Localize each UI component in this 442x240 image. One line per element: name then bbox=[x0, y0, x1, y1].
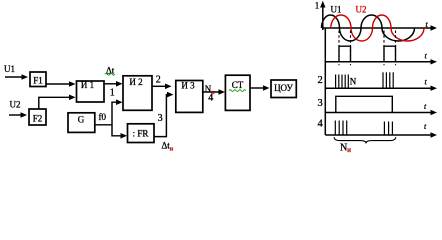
svg-text:ЦОУ: ЦОУ bbox=[274, 83, 293, 93]
pulse 1 row1 bbox=[339, 46, 351, 62]
svg-text:И 3: И 3 bbox=[181, 81, 195, 91]
wire I2 to I3 bbox=[152, 84, 172, 90]
svg-text:1: 1 bbox=[110, 88, 115, 99]
arrowhead axis3 bbox=[431, 110, 438, 115]
arrowhead axis1b bbox=[431, 59, 438, 64]
wire I3 to CT bbox=[203, 89, 225, 95]
block G bbox=[68, 113, 95, 133]
svg-text:U2: U2 bbox=[356, 5, 367, 15]
svg-text:Δtи: Δtи bbox=[162, 141, 174, 153]
arrowhead spine up bbox=[320, 1, 325, 8]
axis vertical spine lower bbox=[324, 29, 326, 136]
wire F1 to I1 bbox=[46, 81, 76, 87]
wire FR output riser to I3 lower input bbox=[154, 92, 174, 137]
arrowhead axis1 bbox=[431, 25, 438, 30]
svg-text:: FR: : FR bbox=[133, 129, 149, 139]
svg-text:U2: U2 bbox=[10, 100, 21, 110]
svg-text:U1: U1 bbox=[4, 64, 15, 74]
svg-text:2: 2 bbox=[318, 75, 323, 86]
svg-text:3: 3 bbox=[318, 98, 323, 109]
pulse 2 row1 bbox=[384, 46, 396, 62]
dashed line 3 bbox=[383, 31, 385, 66]
svg-text:G: G bbox=[78, 115, 85, 125]
wire F2 riser to I1 lower input bbox=[39, 95, 76, 110]
block F1 bbox=[30, 72, 46, 87]
row4 burst B ticks bbox=[383, 122, 385, 136]
wire U2 input arrow bbox=[9, 112, 27, 118]
block I1 bbox=[77, 81, 105, 102]
svg-text:И 1: И 1 bbox=[81, 80, 94, 90]
row2 burst B ticks bbox=[382, 72, 384, 88]
svg-text:И 2: И 2 bbox=[129, 77, 142, 87]
axis 1b (pulse row) bbox=[325, 61, 431, 63]
svg-text:t: t bbox=[424, 102, 427, 111]
axis 1 (sine row) bbox=[322, 27, 431, 29]
block I2 bbox=[123, 76, 152, 111]
svg-text:1: 1 bbox=[315, 1, 320, 11]
svg-text:F2: F2 bbox=[33, 114, 43, 124]
timing diagram bbox=[322, 6, 431, 136]
wire G output with riser bbox=[95, 99, 123, 124]
svg-text:t: t bbox=[425, 78, 428, 87]
underbrace N_i bbox=[334, 137, 396, 143]
svg-text:t: t bbox=[424, 122, 427, 131]
svg-text:U1: U1 bbox=[331, 5, 342, 15]
block FR bbox=[128, 124, 155, 143]
wire riser to FR input bbox=[112, 125, 127, 139]
svg-text:f0: f0 bbox=[99, 112, 107, 122]
dashed line 1 bbox=[338, 31, 340, 66]
axis 4 bbox=[325, 134, 431, 136]
squiggle under dt bbox=[105, 73, 115, 75]
svg-text:3: 3 bbox=[158, 113, 163, 124]
svg-text:СТ: СТ bbox=[232, 80, 244, 90]
row2 burst A ticks bbox=[335, 75, 337, 89]
svg-text:4: 4 bbox=[318, 119, 324, 130]
block CT bbox=[225, 75, 250, 110]
axis 3 bbox=[325, 112, 431, 114]
dashed line 2 bbox=[350, 31, 352, 66]
arrowhead axis2 bbox=[431, 86, 438, 91]
svg-text:t: t bbox=[425, 52, 428, 61]
row3 long pulse bbox=[336, 96, 393, 112]
wire U1 input arrow bbox=[5, 74, 28, 80]
arrowhead axis4 bbox=[431, 132, 438, 137]
svg-text:F1: F1 bbox=[33, 76, 43, 86]
block I3 bbox=[176, 81, 203, 113]
block COU bbox=[271, 80, 296, 98]
svg-text:2: 2 bbox=[156, 75, 161, 86]
wire I1 to I2 bbox=[104, 81, 123, 87]
sine U1 black bbox=[322, 15, 415, 41]
block F2 bbox=[29, 109, 46, 125]
axis vertical spine top bbox=[322, 6, 324, 31]
axis 2 bbox=[325, 87, 431, 89]
wire CT to COU bbox=[250, 85, 270, 91]
svg-text:N: N bbox=[350, 77, 357, 87]
dashed line 4 bbox=[395, 31, 397, 66]
squiggle under CT bbox=[229, 90, 246, 92]
sine U2 red bbox=[331, 15, 424, 41]
row4 burst A ticks bbox=[334, 121, 336, 136]
svg-text:Nи: Nи bbox=[340, 143, 351, 155]
